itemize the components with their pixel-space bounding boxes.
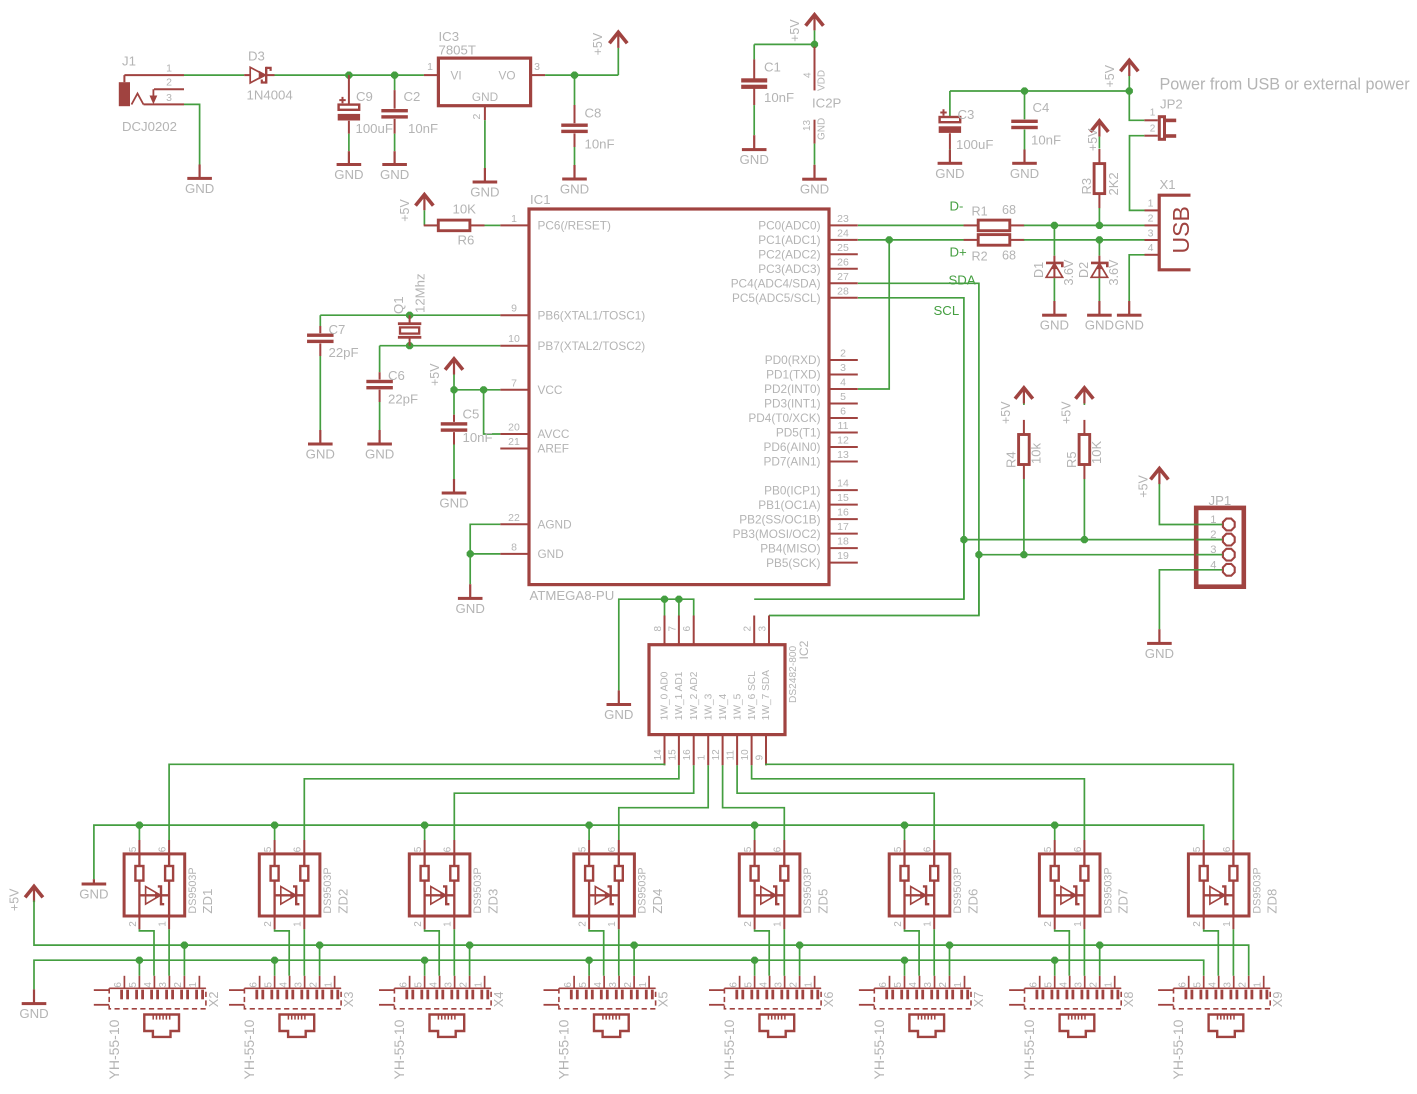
junction +5V X6 pin2 [796,942,803,949]
value 10K R5 [1089,441,1104,464]
pin 2 X3 [308,982,319,988]
wire IC3 GND pin to ground [484,120,486,168]
svg-text:3: 3 [443,982,454,988]
pin 3 X8 [1073,982,1084,988]
svg-text:DS9503P: DS9503P [187,867,199,913]
pin 1 X6 [803,982,814,988]
label JP2 [1160,97,1183,112]
pin 5 X4 [413,982,424,988]
svg-text:PB0(ICP1): PB0(ICP1) [764,483,820,497]
pin 12 IC1 PD6(AIN0) [763,435,857,455]
svg-text:1: 1 [443,921,454,927]
value YH-55-10 X5 [555,1019,571,1079]
pin 6 ZD7 [1073,846,1084,852]
wire ZD7 pin2 to X8 pin4 [1055,929,1070,976]
svg-text:6: 6 [398,982,409,988]
pin 5 ZD6 [893,846,904,852]
junction AGND GND [467,550,474,557]
svg-text:1: 1 [158,921,169,927]
connector X5 YH-55-10 [544,976,656,1037]
svg-text:2: 2 [743,921,754,927]
wire R4 to SDA line [1023,479,1025,555]
label ZD5 [815,889,830,914]
pin 3 X2 [158,982,169,988]
svg-text:+5V: +5V [428,363,442,386]
junction Q1 bottom [406,342,413,349]
pin 6 ZD3 [443,846,454,852]
svg-text:1: 1 [511,213,517,225]
svg-text:4: 4 [278,982,289,988]
wire PC1 to R2 [858,239,964,241]
label C4 [1033,100,1050,115]
wire GND pin8 [470,553,500,555]
svg-text:2K2: 2K2 [1106,172,1121,195]
pin label VI [451,69,462,83]
junction GND X7 pin5 [901,957,908,964]
svg-text:4: 4 [1058,982,1069,988]
pin label 1W_5 IC2 [732,693,743,720]
svg-text:3: 3 [608,982,619,988]
svg-text:VO: VO [498,69,515,83]
svg-text:2: 2 [1192,921,1203,927]
svg-text:C4: C4 [1033,100,1050,115]
svg-text:100uF: 100uF [956,137,993,152]
protection diode ZD7 DS9503P [1039,840,1100,929]
svg-text:1W_6 SCL: 1W_6 SCL [747,671,758,721]
svg-text:12: 12 [837,435,849,447]
value DS9503P ZD8 [1251,867,1263,913]
svg-text:24: 24 [837,227,849,239]
pin 4 X8 [1058,982,1069,988]
junction IC2P VDD [811,41,818,48]
pin 1 ZD2 [293,921,304,927]
svg-text:C7: C7 [329,322,346,337]
svg-text:3: 3 [758,626,769,632]
label R2 [972,250,988,264]
wire SDA to IC2 [769,555,979,616]
wire ZD3 pin1 to X4 pin3 [453,929,455,976]
svg-text:YH-55-10: YH-55-10 [555,1019,571,1079]
supply +5V at R6 [398,195,433,222]
junction SCL JP1 [960,536,967,543]
svg-text:+5V: +5V [8,888,22,911]
pin 18 IC1 PB4(MISO) [760,536,858,556]
junction +5V X5 pin2 [631,942,638,949]
pin 23 IC1 PC0(ADC0) [758,213,858,233]
svg-text:GND: GND [740,152,769,167]
label ZD4 [650,889,665,914]
svg-text:2: 2 [458,982,469,988]
svg-text:ZD4: ZD4 [650,889,665,914]
pin 4 X7 [908,982,919,988]
svg-text:C5: C5 [463,407,480,422]
svg-text:5: 5 [743,982,754,988]
value 10nF C1 [764,90,794,105]
pin 8 IC2 [653,616,665,645]
resistor R4 [1019,420,1030,479]
pin 4 X1 [1148,242,1154,254]
pin 5 ZD8 [1192,846,1203,852]
wire to ground IC1 [469,554,471,584]
pin 1 JP2 [1150,108,1156,119]
svg-text:3.6V: 3.6V [1062,259,1076,286]
svg-text:8: 8 [653,626,664,632]
svg-text:27: 27 [837,271,849,283]
value DS9503P ZD2 [322,867,334,913]
svg-text:6: 6 [113,982,124,988]
pin 2 ZD5 [743,921,754,927]
svg-text:ZD3: ZD3 [485,889,500,914]
label R4 [1004,451,1019,468]
label ZD1 [200,889,215,914]
svg-text:1W_5: 1W_5 [732,693,743,720]
value 10nF C4 [1031,133,1061,148]
svg-text:4: 4 [428,982,439,988]
svg-text:+5V: +5V [999,401,1013,424]
svg-text:1: 1 [1210,514,1216,526]
pin 2 IC3 [471,106,485,121]
pin 6 ZD1 [158,846,169,852]
diode D2 zener [1091,256,1108,279]
pin 2 JP1 [1196,529,1235,545]
wire +5V rail bottom [34,901,1249,976]
pin 9 IC2 [755,735,767,766]
label 10K R6 [453,202,477,217]
svg-text:PC2(ADC2): PC2(ADC2) [758,248,820,262]
pin 6 X5 [563,982,574,988]
pin 2 X1 [1148,213,1154,225]
svg-text:6: 6 [1073,846,1084,852]
svg-text:+5V: +5V [398,199,412,222]
svg-text:PD0(RXD): PD0(RXD) [765,353,821,367]
svg-text:GND: GND [380,167,409,182]
svg-text:3: 3 [840,362,846,374]
pin 14 IC1 PB0(ICP1) [764,478,858,498]
ground GND under IC1 [456,584,485,616]
svg-text:1: 1 [1148,198,1154,210]
svg-text:D1: D1 [1032,262,1046,278]
svg-text:19: 19 [837,550,849,562]
junction at C9 [345,72,352,79]
wire ZD5 pin2 to X6 pin4 [755,929,770,976]
svg-text:3: 3 [534,61,540,73]
value 100uF C3 [956,137,993,152]
svg-text:22pF: 22pF [388,392,418,407]
svg-text:1N4004: 1N4004 [247,88,293,103]
ground GND under JP1 [1145,629,1174,661]
label C7 [329,322,346,337]
pin 22 IC1 AGND [500,512,571,532]
svg-text:3: 3 [923,982,934,988]
svg-text:1: 1 [923,921,934,927]
svg-text:VCC: VCC [538,383,563,397]
wire ZD2 pin1 to X3 pin3 [303,929,305,976]
svg-text:C1: C1 [764,60,781,75]
pin 1 X2 [188,982,199,988]
svg-text:1: 1 [803,982,814,988]
ground GND bottom left [19,989,48,1021]
svg-text:PB4(MISO): PB4(MISO) [760,541,820,555]
pin 1 ZD5 [773,921,784,927]
svg-text:PD5(T1): PD5(T1) [776,426,821,440]
wire ZD4 pin2 to X5 pin4 [589,929,604,976]
ground GND under C1 [740,135,769,167]
pin 2 ZD4 [578,921,589,927]
svg-text:D2: D2 [1077,262,1091,278]
wire X6 pin5 drop [754,960,756,976]
wire SCL from PC5 [858,298,964,599]
svg-text:5: 5 [840,391,846,403]
svg-text:GND: GND [79,887,108,902]
svg-text:3: 3 [158,982,169,988]
svg-text:5: 5 [128,846,139,852]
protection diode ZD3 DS9503P [409,840,470,929]
wire D1 to GND [1053,278,1055,301]
wire JP2 pin2 to USB VBUS [1130,136,1145,211]
svg-text:X8: X8 [1121,992,1136,1008]
pin 5 ZD7 [1043,846,1054,852]
pin 1 label J1 [166,63,172,75]
wire X3 pin2 drop [319,945,321,976]
svg-text:12: 12 [711,749,722,761]
svg-text:X5: X5 [656,992,671,1008]
svg-text:6: 6 [840,406,846,418]
wire JP1 pin4 to GND [1159,570,1196,629]
capacitor C8 [561,75,588,165]
value ATMEGA8-PU [530,588,615,603]
wire 1W_5 net [737,765,934,840]
svg-text:ZD6: ZD6 [965,889,980,914]
svg-text:1W_0 AD0: 1W_0 AD0 [660,671,671,720]
svg-text:+5V: +5V [591,32,605,55]
wire 1W_1 net [304,765,679,840]
wire IC3 VO to +5V [545,74,618,76]
pin 16 IC2 [682,735,694,766]
label X6 [821,992,836,1008]
wire J1 pin3 to GND [184,104,200,164]
ground GND under C7 [306,430,335,462]
wire X7 pin2 drop [949,945,951,976]
junction +5V X7 pin2 [946,942,953,949]
svg-text:YH-55-10: YH-55-10 [1021,1019,1037,1079]
svg-text:PC4(ADC4/SDA): PC4(ADC4/SDA) [731,277,821,291]
wire R2 to USB pin3 [1024,239,1145,241]
pin 6 IC2 [682,616,694,645]
svg-text:DS9503P: DS9503P [1251,867,1263,913]
pin 5 X5 [578,982,589,988]
wire ZD6 pin1 to X7 pin3 [933,929,935,976]
svg-text:7805T: 7805T [439,43,476,58]
value DS9503P ZD1 [187,867,199,913]
svg-text:6: 6 [682,626,693,632]
svg-text:6: 6 [158,846,169,852]
pin 11 IC2 [726,735,738,766]
svg-text:R4: R4 [1004,451,1019,468]
junction D1 on D- line [1051,222,1058,229]
svg-text:10nF: 10nF [764,90,794,105]
label X1 [1160,177,1176,192]
pin 24 IC1 PC1(ADC1) [758,227,858,247]
svg-text:10: 10 [740,749,751,761]
wire +5V rail top right [950,91,1129,117]
pin label 1W_1 AD1 IC2 [674,671,685,720]
pin 20 IC1 AVCC [500,422,570,442]
svg-text:28: 28 [837,285,849,297]
wire ZD7 pin1 to X8 pin3 [1083,929,1085,976]
pin 2 JP2 [1150,124,1156,135]
wire D1 drop [1053,225,1055,255]
connector X4 YH-55-10 [379,976,491,1037]
svg-text:15: 15 [837,492,849,504]
junction R5 SCL [1081,536,1088,543]
svg-text:ZD5: ZD5 [815,889,830,914]
junction JP2 +5V [1126,87,1133,94]
pin 6 IC1 PD4(T0/XCK) [748,406,857,426]
pin 6 X7 [878,982,889,988]
svg-text:PC5(ADC5/SCL): PC5(ADC5/SCL) [732,291,821,305]
ground GND under IC3 [470,168,499,200]
svg-text:GND: GND [1010,166,1039,181]
junction GND X3 pin5 [271,957,278,964]
svg-text:YH-55-10: YH-55-10 [106,1019,122,1079]
supply +5V above R5 [1060,388,1094,424]
wire ZD6 pin2 to X7 pin4 [905,929,920,976]
ground GND under C9 [334,151,363,182]
label IC3 [439,29,460,44]
junction R3 on D- line [1096,222,1103,229]
label SCL net [934,303,960,318]
wire D+ to PD2 [858,240,889,389]
junction R4 SDA [1020,551,1027,558]
svg-text:6: 6 [248,982,259,988]
IC IC2 DS2482-800 box [649,645,785,735]
label C9 [356,89,373,104]
pin 3 IC2 [758,616,770,645]
svg-text:22pF: 22pF [329,345,359,360]
pin 8 IC1 GND [500,541,563,561]
svg-text:DS9503P: DS9503P [952,867,964,913]
svg-text:PC3(ADC3): PC3(ADC3) [758,262,820,276]
svg-text:PD6(AIN0): PD6(AIN0) [763,440,820,454]
supply +5V at JP1 [1137,469,1169,498]
protection diode ZD2 DS9503P [259,840,320,929]
junction D2 on D+ line [1096,236,1103,243]
wire +5V riser [617,48,619,75]
svg-text:1: 1 [473,982,484,988]
svg-text:GND: GND [538,547,564,561]
wire X3 pin5 drop [274,960,276,976]
wire PC0 to R1 [858,224,964,226]
ground GND under IC2 [604,690,633,722]
svg-text:PB5(SCK): PB5(SCK) [766,556,820,570]
protection diode ZD6 DS9503P [889,840,950,929]
svg-text:AREF: AREF [538,442,569,456]
svg-text:26: 26 [837,256,849,268]
pin 1 X7 [953,982,964,988]
pin 28 IC1 PC5(ADC5/SCL) [732,285,858,305]
svg-text:1: 1 [697,754,708,760]
wire +5V to JP1 pin1 [1159,484,1196,525]
ground GND under C4 [1010,150,1039,181]
svg-text:3: 3 [1073,982,1084,988]
value 3.6V D1 [1062,259,1076,286]
svg-text:GND: GND [456,601,485,616]
svg-text:17: 17 [837,521,849,533]
pin 6 ZD8 [1222,846,1233,852]
svg-text:2: 2 [1150,124,1156,135]
svg-text:5: 5 [1192,846,1203,852]
label R5 [1064,451,1079,468]
value 12Mhz Q1 [412,273,427,313]
pin 3 X7 [923,982,934,988]
svg-text:6: 6 [293,846,304,852]
pin 5 X8 [1043,982,1054,988]
value 100uF C9 [356,121,393,136]
pin 2 ZD7 [1043,921,1054,927]
pin 2 IC1 PD0(RXD) [765,348,858,368]
svg-text:1W_1 AD1: 1W_1 AD1 [674,671,685,720]
svg-text:GND: GND [604,707,633,722]
label D1 [1032,262,1046,278]
wire 1W_4 net [723,765,785,840]
junction IC2 pin7 [675,596,682,603]
svg-text:DS9503P: DS9503P [1102,867,1114,913]
pin 2 X4 [458,982,469,988]
value DS2482-800 [788,645,799,703]
pin label 1W_6 SCL IC2 [747,671,758,721]
svg-text:7: 7 [511,377,517,389]
protection diode ZD1 DS9503P [124,840,185,929]
junction IC2 pin8 [661,596,668,603]
pin 5 ZD4 [578,846,589,852]
pin 6 X3 [248,982,259,988]
connector X9 YH-55-10 [1158,976,1270,1037]
resistor R1 [964,220,1025,231]
connector X2 YH-55-10 [94,976,206,1037]
svg-text:3: 3 [773,982,784,988]
svg-text:Q1: Q1 [391,296,406,314]
svg-text:C9: C9 [356,89,373,104]
wire 1W_6 net [752,765,1085,840]
svg-text:100uF: 100uF [356,121,393,136]
svg-text:D3: D3 [248,49,265,64]
label D2 [1077,262,1091,278]
svg-text:USB: USB [1168,206,1194,253]
label R6 [458,233,475,248]
label Power from USB [1160,76,1411,94]
svg-text:11: 11 [838,420,849,432]
ground GND under C3 [935,150,964,181]
label ZD8 [1264,889,1279,914]
svg-text:25: 25 [837,242,849,254]
svg-text:J1: J1 [122,54,136,69]
value 68 R1 [1002,203,1016,217]
wire XTAL2 [380,345,501,347]
svg-text:5: 5 [578,846,589,852]
pin 3 X4 [443,982,454,988]
capacitor C1 [741,44,767,135]
value 10k R4 [1029,443,1044,464]
capacitor C4 [1011,91,1038,150]
svg-text:YH-55-10: YH-55-10 [721,1019,737,1079]
svg-text:8: 8 [511,541,517,553]
svg-text:1: 1 [323,982,334,988]
svg-text:VDD: VDD [817,70,828,91]
label X8 [1121,992,1136,1008]
svg-text:ZD7: ZD7 [1115,889,1130,914]
supply +5V at IC2P [788,15,823,42]
pin 5 X7 [893,982,904,988]
